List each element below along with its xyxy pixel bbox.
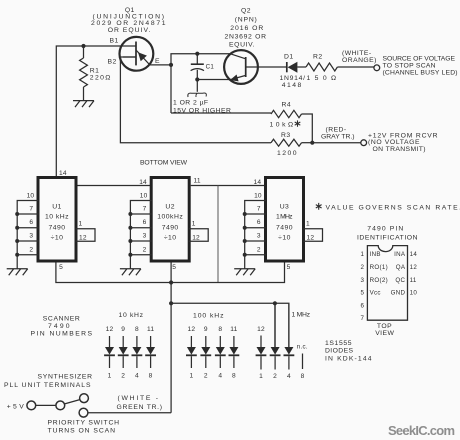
svg-text:12: 12 [188, 326, 196, 333]
svg-text:Q2: Q2 [241, 8, 251, 15]
svg-text:ORANGE): ORANGE) [342, 57, 377, 64]
svg-text:7: 7 [29, 206, 33, 213]
svg-text:2: 2 [204, 373, 208, 380]
svg-text:6: 6 [361, 302, 365, 309]
svg-text:TO STOP SCAN: TO STOP SCAN [383, 62, 437, 69]
resistor R4 [171, 112, 271, 114]
svg-text:1 OR 2 µF: 1 OR 2 µF [173, 100, 209, 107]
Q2 emitter arrow [230, 75, 239, 82]
svg-text:5: 5 [59, 264, 63, 271]
svg-text:U2: U2 [165, 203, 175, 210]
svg-text:÷10: ÷10 [51, 234, 64, 241]
svg-text:PRIORITY SWITCH: PRIORITY SWITCH [48, 420, 120, 427]
svg-text:4: 4 [287, 373, 291, 380]
svg-text:5: 5 [361, 290, 365, 297]
svg-text:VALUE GOVERNS SCAN RATE.: VALUE GOVERNS SCAN RATE. [326, 205, 460, 212]
terminal: +12V (open circle) [361, 140, 367, 146]
node: R3/R4 junction [310, 141, 314, 145]
svg-text:QC: QC [395, 277, 405, 284]
svg-text:(WHITE -: (WHITE - [118, 395, 159, 402]
svg-text:7490: 7490 [276, 224, 293, 231]
svg-text:EQUIV.: EQUIV. [229, 42, 255, 49]
wire: U3 pin1 to pin12 loop [303, 229, 323, 242]
svg-text:14: 14 [410, 251, 418, 258]
svg-text:OR EQUIV.: OR EQUIV. [108, 27, 151, 34]
svg-text:BOTTOM VIEW: BOTTOM VIEW [140, 160, 188, 167]
svg-text:6: 6 [143, 219, 147, 226]
svg-text:÷10: ÷10 [278, 234, 291, 241]
svg-text:12: 12 [410, 264, 418, 271]
svg-text:E: E [155, 58, 160, 65]
wire: Vcc bus connecting pin 5 of U1,U2,U3 [56, 263, 285, 283]
svg-text:R3: R3 [281, 132, 291, 139]
wire: emitter node riser to collector wire and down to R4 [171, 54, 230, 113]
svg-text:1: 1 [108, 373, 112, 380]
svg-text:1: 1 [306, 221, 310, 228]
svg-text:14: 14 [139, 179, 147, 186]
wire: clock line tap down to Vcc bus [217, 186, 219, 283]
IC U1 (10 kHz 7490) [38, 178, 76, 262]
svg-text:12: 12 [307, 234, 315, 241]
switch: lower throw contact [79, 408, 88, 417]
svg-text:14: 14 [254, 179, 262, 186]
ground (U2) [120, 269, 141, 276]
svg-text:U3: U3 [280, 203, 290, 210]
svg-text:INB: INB [370, 251, 381, 258]
terminal: +5V circle [27, 401, 36, 410]
svg-text:1: 1 [79, 221, 83, 228]
wire: U3 left pin bracket (pins 10,7,6,3,2 to ground) [245, 201, 266, 269]
wire: +5V to switch pole [36, 404, 56, 406]
svg-text:7490: 7490 [162, 224, 179, 231]
wire: U2 pin1 to pin12 loop [189, 229, 209, 242]
svg-text:14: 14 [59, 170, 67, 177]
svg-text:11: 11 [410, 277, 417, 284]
svg-text:VIEW: VIEW [375, 330, 394, 337]
Q1 emitter arrow [138, 52, 147, 61]
wire: U2 left pin bracket (pins 10,7,6,3,2 to ground) [130, 201, 151, 269]
svg-text:GRAY TR.): GRAY TR.) [321, 134, 355, 141]
svg-text:(NPN): (NPN) [235, 17, 258, 24]
svg-text:12: 12 [106, 326, 114, 333]
wire: U2 pin5 riser down to priority switch [170, 263, 172, 413]
svg-text:DIODES: DIODES [325, 348, 354, 355]
svg-text:B1: B1 [110, 37, 119, 44]
svg-text:4: 4 [135, 373, 139, 380]
wire: U1 to U2 clock [78, 185, 151, 187]
switch: priority switch pole [56, 401, 65, 410]
svg-text:QA: QA [396, 264, 406, 271]
svg-text:3: 3 [361, 277, 365, 284]
svg-text:(CHANNEL BUSY LED): (CHANNEL BUSY LED) [383, 69, 459, 76]
node: 1 MHz diode column 2 junction [273, 301, 277, 305]
svg-text:IN KDK-144: IN KDK-144 [325, 356, 372, 363]
resistor R2 [306, 63, 337, 71]
svg-text:2: 2 [121, 373, 125, 380]
svg-text:10 kHz: 10 kHz [119, 312, 144, 319]
svg-text:7490: 7490 [49, 224, 66, 231]
node: emitter junction [169, 63, 173, 67]
svg-text:1: 1 [361, 251, 365, 258]
wire: Q2 base to D1 [246, 66, 287, 68]
svg-text:1: 1 [189, 373, 193, 380]
svg-text:2016 OR: 2016 OR [230, 25, 264, 32]
switch blade [65, 400, 80, 404]
svg-text:n.c.: n.c. [297, 344, 308, 351]
transistor Q1 (unijunction) [119, 37, 153, 71]
node: C1 bottom [195, 77, 199, 81]
terminal: source of voltage (open circle) [374, 65, 380, 71]
svg-text:3: 3 [257, 233, 261, 240]
wire: U1 left pin bracket (pins 10,7,6,3,2 to ground) [17, 201, 38, 269]
svg-text:11: 11 [230, 326, 237, 333]
svg-text:8: 8 [218, 326, 222, 333]
svg-text:7490: 7490 [48, 323, 70, 330]
svg-text:RO(1): RO(1) [370, 264, 388, 271]
svg-text:10: 10 [410, 290, 418, 297]
node: R1 top junction [81, 44, 85, 48]
node: C1 top [195, 52, 199, 56]
svg-text:SCANNER: SCANNER [43, 316, 81, 323]
label * VALUE GOVERNS SCAN RATE [316, 203, 322, 210]
svg-text:SeekIC.com: SeekIC.com [388, 423, 455, 438]
svg-text:10: 10 [254, 193, 262, 200]
svg-text:2: 2 [143, 247, 147, 254]
svg-text:10: 10 [140, 193, 148, 200]
svg-text:ON TRANSMIT): ON TRANSMIT) [373, 146, 427, 153]
wire: 1 MHz diode column 2 drop [274, 303, 276, 347]
svg-text:C1: C1 [206, 64, 215, 71]
svg-text:8: 8 [149, 373, 153, 380]
svg-text:1 MHz: 1 MHz [292, 311, 311, 318]
wire: +12V lead [312, 142, 361, 144]
svg-text:11: 11 [194, 177, 201, 184]
svg-text:2: 2 [361, 264, 365, 271]
svg-text:100kHz: 100kHz [157, 214, 183, 221]
svg-text:7490 PIN: 7490 PIN [367, 225, 404, 232]
svg-text:1: 1 [259, 373, 263, 380]
svg-text:9: 9 [121, 326, 125, 333]
svg-text:6: 6 [29, 219, 33, 226]
resistor R3 [271, 139, 302, 146]
svg-text:7: 7 [257, 206, 261, 213]
svg-text:2: 2 [29, 247, 33, 254]
wire: 1 MHz diode bus [171, 303, 289, 347]
svg-text:2: 2 [257, 247, 261, 254]
svg-text:5: 5 [287, 264, 291, 271]
svg-text:Vcc: Vcc [370, 290, 381, 297]
resistor R1 [83, 46, 85, 58]
svg-text:PIN NUMBERS: PIN NUMBERS [31, 331, 93, 338]
capacitor C1 value pointer [196, 80, 198, 92]
svg-text:+5V: +5V [7, 403, 25, 410]
capacitor C1 [196, 54, 198, 64]
svg-text:4: 4 [218, 373, 222, 380]
ground (U1) [7, 269, 28, 276]
wire: C1 bottom to Q2 emitter [197, 79, 229, 81]
svg-text:11: 11 [147, 326, 154, 333]
IC U3 (1 MHz 7490) [266, 178, 304, 262]
ground (U3) [234, 269, 255, 276]
wire: U2 to U3 clock [191, 185, 265, 187]
diode 1 MHz group, bus to terminal 4 [288, 304, 290, 347]
svg-text:220Ω: 220Ω [90, 75, 111, 82]
svg-text:10kΩ: 10kΩ [270, 122, 294, 129]
svg-text:RO(2): RO(2) [370, 277, 388, 284]
svg-text:12: 12 [192, 234, 200, 241]
svg-text:D1: D1 [284, 53, 294, 60]
svg-text:1 MHz: 1 MHz [276, 214, 293, 221]
svg-text:6: 6 [257, 219, 261, 226]
svg-text:TURNS ON SCAN: TURNS ON SCAN [48, 427, 116, 434]
switch: upper throw contact [80, 394, 89, 403]
node: 1 MHz bus junction [169, 301, 173, 305]
svg-text:3: 3 [143, 233, 147, 240]
svg-text:IDENTIFICATION: IDENTIFICATION [357, 235, 418, 242]
node: bus junction at U2 pin 5 [169, 280, 173, 284]
svg-text:(RED-: (RED- [326, 127, 347, 134]
IC U2 (100kHz 7490) [151, 178, 189, 262]
transistor Q2 (NPN) [224, 50, 258, 84]
wire: B1 rail (top-left corner down to U1 pin 14) [56, 46, 136, 176]
svg-text:12: 12 [79, 234, 87, 241]
wire: B2 down to R3 [120, 57, 271, 143]
svg-text:SYNTHESIZER: SYNTHESIZER [38, 374, 93, 381]
svg-text:÷10: ÷10 [164, 234, 177, 241]
diode D1 [286, 62, 288, 72]
svg-text:9: 9 [204, 326, 208, 333]
svg-text:100 kHz: 100 kHz [193, 313, 224, 320]
svg-text:GND: GND [391, 290, 406, 297]
svg-text:GREEN TR.): GREEN TR.) [117, 404, 163, 411]
svg-text:7: 7 [361, 315, 365, 322]
wire: switch output to scan line [88, 412, 171, 414]
svg-text:8: 8 [135, 326, 139, 333]
svg-text:1N914/: 1N914/ [280, 75, 306, 82]
svg-text:U1: U1 [52, 203, 62, 210]
svg-text:R4: R4 [282, 102, 292, 109]
svg-text:4148: 4148 [282, 82, 302, 89]
svg-text:INA: INA [394, 251, 406, 258]
svg-text:10: 10 [27, 193, 35, 200]
diode 1 MHz group, bus to terminal 2 [274, 304, 276, 347]
svg-text:R1: R1 [90, 67, 100, 74]
svg-text:8: 8 [301, 373, 305, 380]
svg-text:3: 3 [29, 233, 33, 240]
svg-text:8: 8 [232, 373, 236, 380]
svg-text:1S1555: 1S1555 [325, 340, 352, 347]
ground (below R1) [73, 101, 94, 108]
svg-text:2: 2 [273, 373, 277, 380]
svg-text:B2: B2 [108, 59, 117, 66]
svg-text:10 kHz: 10 kHz [45, 214, 69, 221]
svg-text:1200: 1200 [277, 150, 297, 157]
svg-text:2N3692 OR: 2N3692 OR [225, 34, 267, 41]
svg-text:12: 12 [257, 326, 265, 333]
svg-text:7: 7 [143, 206, 147, 213]
svg-text:1: 1 [192, 221, 196, 228]
svg-text:5: 5 [172, 264, 176, 271]
svg-text:PLL UNIT TERMINALS: PLL UNIT TERMINALS [4, 382, 91, 389]
wire: U1 pin1 to pin12 loop [76, 229, 96, 242]
svg-text:R2: R2 [313, 53, 323, 60]
